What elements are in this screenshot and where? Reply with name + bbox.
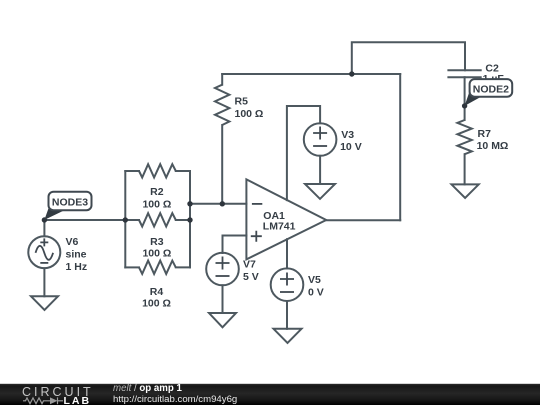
svg-text:100 Ω: 100 Ω — [235, 108, 264, 120]
wire V5 bottom — [286, 301, 288, 329]
V7 plus marker — [216, 257, 230, 270]
V6 minus marker — [40, 262, 48, 264]
wire junction to C2 (up and right) — [352, 42, 465, 74]
svg-text:100 Ω: 100 Ω — [142, 247, 171, 259]
V7 minus marker — [216, 275, 230, 277]
svg-text:5 V: 5 V — [243, 271, 259, 283]
svg-text:1 Hz: 1 Hz — [66, 261, 88, 273]
wire top feedback horizontal (R5 top to output corner) — [222, 73, 400, 75]
svg-text:V5: V5 — [308, 274, 321, 286]
ground (R7) — [452, 184, 479, 198]
wire V7 bottom — [222, 285, 224, 313]
resistor R2 — [139, 164, 176, 177]
wire R2 right lead — [176, 170, 190, 172]
junction dot NODE3 — [42, 217, 47, 222]
V6 sine squiggle — [36, 246, 54, 260]
wire output vertical (corner down to op-amp output) — [399, 74, 401, 220]
op-amp OA1 triangle — [246, 179, 326, 259]
V6 plus marker — [40, 238, 48, 246]
wire R3 left lead — [125, 219, 139, 221]
svg-text:10 V: 10 V — [340, 141, 362, 153]
wire left rail — [124, 171, 126, 267]
svg-text:R5: R5 — [235, 96, 249, 108]
svg-text:sine: sine — [66, 249, 87, 261]
op-amp plus input marker — [251, 231, 262, 242]
wire minus input (right rail to op-amp) — [190, 203, 246, 205]
svg-text:10 MΩ: 10 MΩ — [477, 140, 509, 152]
svg-text:R7: R7 — [478, 128, 492, 140]
svg-text:melt / op amp 1: melt / op amp 1 — [113, 383, 183, 394]
source V6 circle — [28, 236, 60, 268]
wire op-amp V- pin to V5 — [286, 239, 288, 268]
svg-text:100 Ω: 100 Ω — [142, 297, 171, 309]
junction dot NODE2 — [462, 103, 467, 108]
svg-text:LAB: LAB — [64, 395, 92, 405]
V3 plus marker — [313, 127, 327, 140]
svg-text:http://circuitlab.com/cm94y6g: http://circuitlab.com/cm94y6g — [113, 394, 237, 405]
wire C2 bottom to R7 top — [464, 77, 466, 120]
wire R2 left lead — [125, 170, 139, 172]
wire R4 left lead — [125, 266, 139, 268]
source V5 circle — [271, 268, 304, 301]
resistor R4 — [139, 261, 176, 274]
junction dot R5 bottom — [220, 201, 225, 206]
ground (V3) — [305, 184, 335, 199]
svg-text:V6: V6 — [66, 236, 79, 248]
logo resistor-diode glyph — [23, 397, 63, 404]
svg-text:V7: V7 — [243, 259, 256, 271]
svg-text:NODE3: NODE3 — [52, 196, 88, 208]
svg-text:0 V: 0 V — [308, 287, 324, 299]
svg-text:R2: R2 — [150, 186, 164, 198]
junction dot feedback T — [349, 71, 354, 76]
node label NODE3 — [44, 192, 91, 220]
wire R7 bottom lead — [464, 154, 466, 184]
node label NODE2 — [465, 79, 513, 106]
V5 plus marker — [280, 273, 294, 286]
svg-text:V3: V3 — [341, 129, 354, 141]
resistor R3 — [139, 213, 176, 226]
svg-text:100 Ω: 100 Ω — [142, 198, 171, 210]
resistor R5 — [215, 85, 229, 125]
resistor R7 — [457, 120, 471, 154]
svg-text:NODE2: NODE2 — [473, 83, 509, 95]
wire V6 top — [43, 220, 45, 236]
wire R3 right lead — [176, 219, 190, 221]
ground (V5) — [274, 329, 302, 343]
footer bar — [0, 383, 540, 407]
wire V3 to op-amp V+ pin — [287, 106, 320, 200]
wire R5 top lead — [221, 74, 223, 85]
junction dot left rail — [123, 217, 128, 222]
wire input from NODE3 to left rail — [44, 219, 125, 221]
junction dot right rail R3 — [187, 217, 192, 222]
source V3 circle — [304, 123, 337, 156]
ground (V7) — [209, 313, 236, 327]
V3 minus marker — [313, 145, 327, 147]
wire right rail — [189, 171, 191, 267]
wire op-amp output — [326, 219, 400, 221]
ground (V6) — [31, 296, 58, 310]
wire R4 right lead — [176, 266, 190, 268]
wire R5 bottom lead to minus node — [221, 125, 223, 204]
wire V3 bottom — [319, 156, 321, 184]
junction dot right rail tap — [187, 201, 192, 206]
svg-text:LM741: LM741 — [263, 220, 296, 232]
wire V6 bottom — [43, 268, 45, 296]
op-amp minus input marker — [252, 203, 262, 205]
capacitor C2 — [447, 70, 481, 77]
source V7 circle — [206, 253, 239, 286]
V5 minus marker — [280, 291, 294, 293]
wire V7 to op-amp plus input — [223, 236, 247, 254]
